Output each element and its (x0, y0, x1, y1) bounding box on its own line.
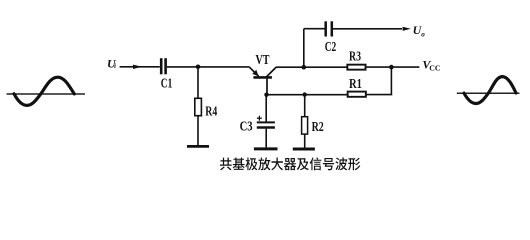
junction at R4 tap (196, 65, 201, 70)
caption char 形 (348, 158, 360, 171)
transistor base bar (253, 76, 272, 79)
caption char 号 (323, 158, 334, 170)
wire collector to R3 (276, 66, 347, 68)
wire R1 to Vcc vertical (366, 94, 392, 96)
svg-text:C3: C3 (240, 119, 253, 134)
node Vcc label (422, 58, 440, 73)
svg-text:C2: C2 (325, 40, 337, 55)
caption char 信 (310, 157, 322, 170)
caption 共基极放大器及信号波形 (220, 157, 360, 170)
wire R2 tap down (304, 95, 306, 117)
transistor emitter arrow (252, 70, 258, 76)
junction base node (264, 93, 268, 97)
input sine wave (14, 77, 74, 105)
transistor base lead (266, 79, 268, 95)
svg-text:R1: R1 (349, 77, 362, 92)
junction R2 tap (303, 92, 307, 96)
caption char 及 (297, 158, 309, 170)
wire C3 to ground (265, 129, 267, 148)
wire base node down to C3 (265, 95, 267, 122)
capacitor C3 (257, 121, 275, 123)
svg-text:C1: C1 (161, 76, 173, 91)
wire R4 to ground (197, 116, 199, 145)
input waveform axis line (7, 93, 86, 95)
wire up to C2 (303, 29, 305, 67)
wire R3 to Vcc (366, 66, 420, 68)
wire R2 to ground (304, 134, 306, 147)
capacitor C1 (160, 58, 163, 74)
output sine wave (464, 77, 516, 104)
wire C2 to output arrow (333, 28, 402, 30)
transistor emitter wire (249, 67, 258, 76)
resistor R4 (195, 98, 202, 115)
svg-text:VCC: VCC (422, 58, 440, 73)
resistor R1 (348, 92, 366, 97)
ground under R2 (293, 148, 315, 151)
output waveform axis line (457, 92, 520, 94)
node Uo label (413, 23, 426, 39)
wire down to R4 (197, 67, 199, 99)
svg-text:R4: R4 (205, 104, 217, 119)
resistor R2 (302, 117, 308, 134)
ground under C3 (254, 147, 278, 150)
caption char 放 (258, 157, 270, 170)
junction Vcc (389, 65, 394, 70)
caption char 器 (284, 158, 296, 170)
caption char 共 (220, 158, 232, 171)
wire base line (267, 94, 348, 96)
resistor R3 (347, 65, 365, 70)
caption char 波 (335, 157, 347, 170)
svg-text:Ui: Ui (107, 56, 117, 70)
wire input (120, 66, 160, 68)
caption char 基 (233, 158, 245, 170)
arrow on input wire (133, 65, 142, 69)
arrow to Uo (403, 27, 411, 31)
svg-text:VT: VT (256, 53, 270, 68)
caption char 大 (271, 158, 283, 171)
transistor VT label (256, 53, 270, 68)
transistor collector wire (267, 67, 277, 77)
junction C2 tap (302, 65, 307, 70)
svg-text:R3: R3 (349, 50, 361, 65)
svg-text:R2: R2 (312, 120, 324, 135)
wire to C2 left plate (304, 28, 325, 30)
capacitor C2 (324, 21, 327, 36)
ground under R4 (187, 145, 209, 148)
wire Vcc down to R1 (390, 67, 392, 95)
node Ui label (107, 56, 117, 70)
caption char 极 (245, 158, 257, 171)
svg-text:Uo: Uo (413, 23, 426, 39)
capacitor C3 polarity plus (257, 117, 262, 119)
wire C1 to emitter (167, 66, 250, 68)
